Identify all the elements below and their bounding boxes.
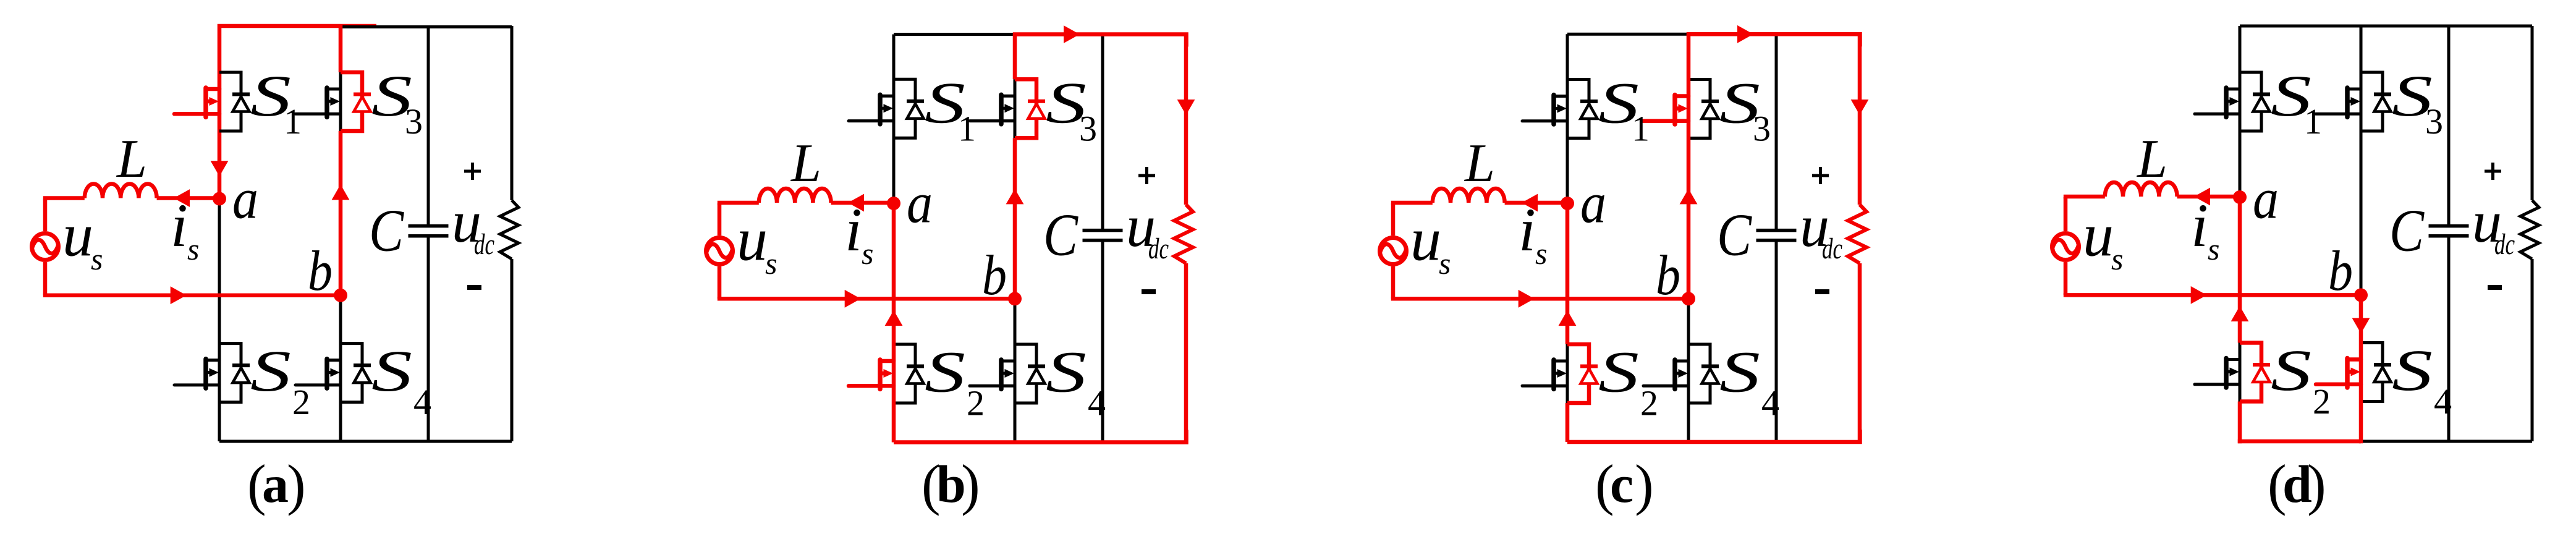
panel (c): full-bridge rectifier conduction state	[1380, 25, 1869, 516]
wire red path: bottom rail load back to S2	[1567, 430, 1860, 442]
arrow current direction (bottom wire)	[1519, 290, 1535, 308]
wire bottom rail	[219, 440, 512, 443]
svg-text:4: 4	[413, 382, 431, 422]
node a junction	[2233, 190, 2247, 204]
capacitor C plates	[1083, 231, 1123, 240]
svg-text:s: s	[2208, 232, 2219, 266]
wire bridge leg 2 (S3-S4)	[1014, 79, 1017, 442]
arrow conduction right on top rail	[1737, 25, 1753, 43]
polarity minus	[2488, 285, 2502, 290]
transistor S1 MOSFET gate/channel	[174, 88, 219, 117]
wire top rail	[1567, 33, 1688, 36]
load resistor zigzag	[500, 200, 519, 259]
svg-text:s: s	[765, 246, 777, 281]
svg-text:S: S	[2271, 337, 2311, 403]
transistor S4 body-diode	[2374, 365, 2391, 382]
transistor S3 body-diode	[1701, 101, 1719, 119]
label is	[171, 191, 199, 266]
svg-text:4: 4	[2434, 381, 2452, 422]
arrow current direction (bottom wire)	[171, 286, 187, 304]
polarity minus	[467, 285, 481, 290]
wire capacitor branch	[1101, 35, 1104, 443]
transistor S4 body-diode	[1028, 367, 1045, 384]
panel (d): full-bridge rectifier conduction state	[2053, 26, 2540, 516]
load resistor zigzag	[1174, 205, 1193, 263]
svg-text:i: i	[845, 195, 862, 264]
svg-text:s: s	[1439, 246, 1451, 281]
svg-text:S: S	[2392, 337, 2433, 403]
label S3	[1719, 70, 1771, 149]
svg-text:): )	[2307, 453, 2326, 516]
label udc	[1126, 193, 1169, 265]
wire bridge leg 1 (S1-S2)	[218, 199, 221, 442]
svg-text:C: C	[1717, 202, 1752, 268]
label us	[2083, 201, 2123, 276]
transistor S3 body-diode loop	[2361, 72, 2383, 131]
wire bridge leg 2 (S3-S4)	[1687, 299, 1690, 442]
wire red path: node b down through S4 channel to bottom rail	[2359, 295, 2363, 443]
svg-text:S: S	[1046, 339, 1087, 405]
wire red path: node b up through S3 channel	[1687, 34, 1691, 299]
transistor S2 MOSFET gate/channel	[1522, 360, 1567, 389]
transistor S3 body-diode loop	[1015, 79, 1036, 138]
AC source us circle	[706, 238, 733, 265]
wire bridge leg 2 (S3-S4)	[2360, 26, 2363, 295]
polarity minus	[1142, 289, 1156, 294]
svg-text:s: s	[862, 236, 873, 271]
arrow conduction down through S4	[2352, 318, 2370, 334]
transistor S2 body-diode	[232, 365, 250, 383]
svg-text:dc: dc	[474, 228, 494, 261]
svg-text:1: 1	[958, 108, 976, 148]
transistor S3 MOSFET gate/channel	[1643, 95, 1688, 125]
wire red path: node a down through S2 to bottom rail	[892, 203, 896, 443]
svg-text:S: S	[371, 338, 412, 404]
polarity plus	[2485, 163, 2501, 180]
arrow is current direction (top wire)	[1522, 194, 1538, 212]
panel (a): full-bridge rectifier conduction state	[32, 25, 519, 516]
svg-text:2: 2	[967, 383, 985, 423]
load resistor zigzag	[1848, 205, 1866, 263]
load resistor branch	[1858, 34, 1862, 442]
svg-text:L: L	[790, 134, 821, 193]
svg-text:S: S	[1719, 339, 1760, 405]
wire source loop left	[2064, 197, 2068, 295]
transistor S4 body-diode	[354, 365, 371, 383]
svg-text:2: 2	[292, 382, 310, 422]
transistor S3 body-diode	[354, 95, 371, 112]
label S4	[2392, 337, 2452, 422]
load resistor branch	[1184, 35, 1188, 443]
svg-text:a: a	[1580, 172, 1606, 236]
label S1	[250, 63, 302, 142]
label S4	[371, 338, 431, 422]
svg-text:u: u	[62, 201, 93, 269]
transistor S2 MOSFET gate/channel	[174, 359, 219, 389]
load resistor zigzag	[2520, 200, 2539, 259]
label udc	[1800, 193, 1842, 265]
wire bridge leg 2 (S3-S4)	[339, 72, 342, 441]
polarity plus	[464, 163, 481, 180]
transistor S2 body-diode loop	[1567, 344, 1589, 403]
label S3	[371, 63, 423, 142]
svg-text:a: a	[907, 172, 933, 236]
label S3	[1046, 70, 1097, 148]
transistor S4 MOSFET gate/channel	[2316, 359, 2361, 388]
wire inductor to node a	[2177, 195, 2240, 199]
arrow conduction up through S2 diode	[1559, 310, 1577, 326]
arrow current direction (bottom wire)	[2191, 286, 2207, 304]
transistor S4 MOSFET gate/channel	[1643, 360, 1688, 389]
svg-text:dc: dc	[2494, 228, 2515, 261]
transistor S2 MOSFET gate/channel	[2195, 359, 2240, 388]
transistor S4 body-diode loop	[1688, 344, 1710, 403]
wire source loop left	[1391, 203, 1396, 299]
transistor S4 body-diode loop	[2361, 343, 2383, 402]
inductor L	[2105, 182, 2177, 197]
label S1	[1598, 70, 1650, 149]
wire top rail	[894, 33, 1015, 36]
wire bottom rail	[2240, 440, 2532, 443]
capacitor C plates	[2429, 226, 2469, 236]
svg-text:s: s	[91, 242, 103, 276]
transistor S3 body-diode loop	[1688, 80, 1710, 138]
wire bridge leg 1 (S1-S2)	[892, 35, 896, 204]
label S4	[1046, 339, 1106, 423]
AC source us circle	[32, 234, 59, 260]
polarity minus	[1815, 289, 1829, 294]
svg-text:b: b	[308, 239, 333, 302]
svg-text:4: 4	[1761, 383, 1779, 423]
AC source us circle	[1380, 238, 1407, 265]
label us	[737, 205, 777, 281]
label is	[845, 195, 873, 271]
node b junction	[2354, 288, 2368, 302]
transistor S3 MOSFET gate/channel	[970, 95, 1015, 124]
wire bottom rail	[1567, 441, 1860, 444]
svg-text:i: i	[1519, 195, 1536, 264]
svg-text:b: b	[2328, 239, 2353, 302]
wire source to inductor	[2064, 195, 2105, 199]
transistor S2 body-diode loop	[2240, 343, 2261, 402]
wire red path: node b up to S3 diode	[1013, 35, 1017, 299]
transistor S1 MOSFET gate/channel	[2195, 88, 2240, 117]
arrow conduction down through S1	[211, 161, 229, 176]
node a junction	[887, 197, 900, 210]
capacitor C plates	[1756, 231, 1797, 240]
svg-text:L: L	[1464, 134, 1495, 193]
wire source loop bottom to node b	[1391, 297, 1688, 301]
svg-text:dc: dc	[1148, 232, 1169, 265]
arrow conduction up through S2	[885, 310, 903, 326]
wire capacitor branch	[2447, 26, 2451, 441]
svg-text:b: b	[982, 244, 1007, 307]
svg-text:u: u	[1410, 205, 1441, 274]
wire red path: bottom rail between legs	[2238, 439, 2361, 444]
svg-text:s: s	[2111, 242, 2123, 276]
capacitor C plates	[409, 226, 449, 236]
svg-text:3: 3	[2425, 101, 2443, 142]
wire inductor to node a	[157, 196, 219, 200]
svg-text:4: 4	[1088, 383, 1106, 423]
wire source to inductor	[718, 201, 759, 205]
wire source loop bottom to node b	[718, 297, 1015, 301]
wire red path: top rail S3 to load	[1013, 35, 1187, 47]
panel (b): full-bridge rectifier conduction state	[706, 25, 1195, 516]
transistor S4 body-diode	[1701, 367, 1719, 384]
polarity plus	[1138, 167, 1155, 184]
arrow conduction down into load	[1177, 100, 1195, 115]
svg-text:3: 3	[1079, 108, 1097, 148]
transistor S2 body-diode	[907, 367, 924, 384]
svg-text:S: S	[250, 338, 291, 404]
wire capacitor branch	[1775, 34, 1778, 442]
svg-text:s: s	[187, 232, 199, 266]
svg-text:C: C	[2389, 198, 2425, 264]
transistor S1 body-diode	[1580, 101, 1598, 119]
svg-text:i: i	[2191, 191, 2208, 260]
label S4	[1719, 339, 1779, 423]
transistor S3 MOSFET gate/channel	[2316, 88, 2361, 117]
wire bridge leg 1 (S1-S2)	[2239, 26, 2242, 402]
wire red path: node b up through S3 diode	[339, 25, 343, 295]
node a junction	[1561, 197, 1574, 210]
label udc	[452, 189, 494, 261]
node b junction	[1682, 292, 1695, 305]
wire top rail	[341, 25, 512, 28]
node b junction	[1008, 292, 1022, 305]
arrow conduction up through S2 diode	[2231, 306, 2249, 321]
svg-text:u: u	[737, 205, 768, 274]
wire source loop left	[718, 203, 722, 299]
label S3	[2392, 63, 2443, 142]
svg-text:S: S	[1598, 339, 1639, 405]
svg-text:a: a	[232, 168, 258, 231]
transistor S1 body-diode	[907, 101, 924, 119]
transistor S3 body-diode loop	[341, 72, 362, 131]
label udc	[2472, 189, 2515, 261]
label is	[2191, 191, 2219, 266]
label S2	[1598, 339, 1658, 423]
wire source loop bottom to node b	[43, 293, 341, 297]
wire capacitor branch	[427, 26, 430, 441]
inductor L	[759, 189, 831, 203]
svg-text:3: 3	[1753, 109, 1771, 149]
svg-text:dc: dc	[1822, 232, 1842, 265]
svg-text:a: a	[262, 454, 289, 514]
caption (d)	[2268, 453, 2326, 516]
transistor S1 body-diode loop	[894, 79, 915, 138]
wire inductor to node a	[1505, 201, 1567, 205]
inductor L	[1433, 189, 1505, 203]
wire top rail	[2240, 25, 2532, 28]
svg-text:a: a	[2253, 168, 2279, 231]
AC source us circle	[2053, 234, 2079, 260]
arrow is current direction (top wire)	[2194, 188, 2210, 206]
svg-text:S: S	[925, 339, 965, 405]
transistor S4 body-diode loop	[341, 344, 362, 402]
svg-text:): )	[961, 453, 980, 516]
label S1	[2271, 63, 2322, 142]
wire bottom rail	[894, 441, 1186, 444]
svg-text:1: 1	[284, 101, 302, 142]
wire red path: S1 drain to top rail (conducting, under black rail)	[219, 26, 376, 199]
svg-text:2: 2	[1640, 383, 1658, 423]
wire inductor to node a	[831, 201, 894, 205]
polarity plus	[1812, 167, 1829, 184]
transistor S2 body-diode	[2253, 365, 2270, 382]
node b junction	[334, 289, 347, 302]
arrow conduction up through S3	[332, 184, 350, 200]
svg-text:): )	[1635, 453, 1654, 516]
svg-text:L: L	[2136, 129, 2167, 189]
transistor S4 MOSFET gate/channel	[970, 360, 1015, 389]
transistor S1 body-diode	[2253, 95, 2270, 112]
transistor S2 body-diode	[1580, 367, 1598, 384]
transistor S3 body-diode	[2374, 95, 2391, 112]
arrow conduction right on top rail	[1064, 25, 1080, 43]
arrow conduction up through S3 leg	[1006, 189, 1024, 204]
svg-text:): )	[287, 453, 306, 516]
label S1	[925, 70, 976, 148]
load resistor branch	[2531, 26, 2534, 441]
inductor L	[85, 184, 157, 198]
svg-text:i: i	[171, 191, 188, 260]
arrow current direction (bottom wire)	[845, 290, 861, 308]
svg-text:1: 1	[1632, 109, 1650, 149]
caption (c)	[1595, 453, 1654, 516]
arrow conduction up through S3 leg	[1680, 189, 1698, 204]
wire source loop bottom to node b	[2064, 293, 2361, 297]
load resistor branch	[511, 26, 514, 441]
transistor S1 MOSFET gate/channel	[849, 95, 894, 124]
transistor S1 body-diode loop	[2240, 72, 2261, 131]
svg-text:c: c	[1610, 454, 1633, 514]
label S2	[925, 339, 985, 423]
label us	[62, 201, 103, 276]
wire source to inductor	[1391, 201, 1433, 205]
svg-text:C: C	[1043, 202, 1078, 268]
svg-text:b: b	[1656, 244, 1680, 307]
transistor S4 MOSFET gate/channel	[295, 359, 341, 389]
wire red path: node a down through S2 diode to bottom rail	[1566, 203, 1570, 442]
wire source loop left	[43, 199, 48, 295]
transistor S2 body-diode loop	[894, 344, 915, 403]
label S2	[2271, 337, 2331, 422]
label is	[1519, 195, 1547, 271]
wire red path: top rail S3 to load	[1687, 34, 1860, 46]
svg-text:s: s	[1535, 236, 1547, 271]
wire red path: node a down through S2 diode to bottom rail	[2238, 197, 2242, 443]
svg-text:2: 2	[2313, 381, 2331, 422]
svg-text:u: u	[2083, 201, 2114, 269]
svg-text:C: C	[369, 198, 404, 264]
label S2	[250, 338, 310, 422]
svg-text:3: 3	[405, 101, 423, 142]
wire red path: bottom rail load back to S2	[894, 430, 1187, 443]
svg-text:L: L	[116, 129, 147, 189]
svg-text:1: 1	[2304, 101, 2322, 142]
wire source to inductor	[43, 196, 85, 200]
transistor S1 body-diode loop	[1567, 80, 1589, 138]
wire bridge leg 1 (S1-S2)	[1566, 34, 1569, 403]
arrow is current direction (top wire)	[848, 194, 864, 212]
transistor S1 MOSFET gate/channel	[1522, 95, 1567, 125]
transistor S3 body-diode	[1028, 101, 1045, 119]
arrow conduction down into load	[1851, 100, 1869, 115]
caption (b)	[922, 453, 980, 516]
node a junction	[213, 192, 226, 206]
label us	[1410, 205, 1451, 281]
transistor S3 MOSFET gate/channel	[295, 88, 341, 117]
transistor S1 body-diode	[232, 95, 250, 112]
caption (a)	[247, 453, 306, 516]
transistor S2 body-diode loop	[219, 344, 241, 402]
transistor S2 MOSFET gate/channel	[849, 360, 894, 389]
transistor S1 body-diode loop	[219, 72, 241, 131]
transistor S4 body-diode loop	[1015, 344, 1036, 403]
arrow is current direction (top wire)	[174, 189, 190, 207]
